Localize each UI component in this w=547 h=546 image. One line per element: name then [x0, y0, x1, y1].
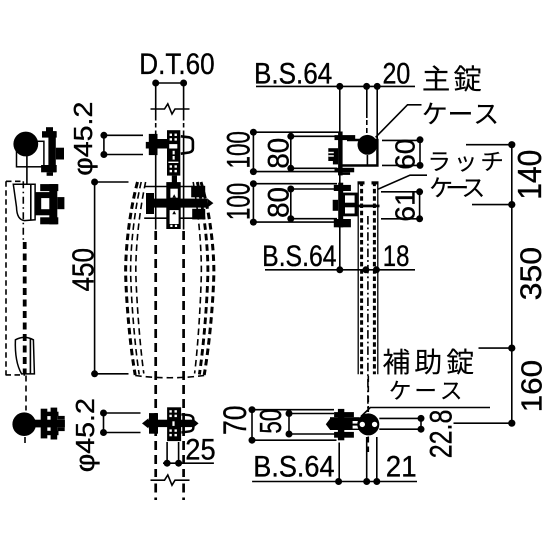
svg-text:80: 80 — [263, 138, 296, 169]
leader to aux label / underline — [361, 408, 490, 417]
svg-text:450: 450 — [66, 248, 101, 291]
centre line through strip — [367, 216, 369, 412]
svg-text:φ45.2: φ45.2 — [70, 398, 99, 472]
dim line top B.S. — [256, 85, 415, 87]
svg-text:B.S.64: B.S.64 — [253, 449, 334, 482]
left view: bottom lock flanges — [34, 408, 65, 440]
door lines middle (hidden) — [156, 131, 184, 230]
dim chain 140/350/160 — [454, 145, 512, 424]
svg-text:φ45.2: φ45.2 — [68, 102, 97, 176]
svg-text:25: 25 — [185, 433, 215, 466]
dim line bottom B.S. — [252, 481, 417, 483]
label ケース (latch) — [431, 177, 452, 197]
svg-text:60: 60 — [390, 139, 421, 170]
svg-text:80: 80 — [263, 187, 296, 218]
latch case — [333, 183, 358, 228]
left view: handle grip hidden outline — [6, 181, 26, 375]
extension lines to bottom B.S. — [339, 437, 377, 482]
pipe break symbol bottom — [151, 475, 190, 485]
svg-text:350: 350 — [514, 247, 547, 301]
dim 61 — [381, 192, 420, 219]
svg-text:B.S.64: B.S.64 — [262, 239, 336, 273]
svg-text:140: 140 — [510, 150, 547, 200]
leader to main lock label — [376, 105, 422, 138]
main lock cylinder (black circle) — [358, 135, 378, 155]
barrel handle outline (dashed) — [126, 182, 214, 378]
left view: thin case outline — [17, 141, 44, 167]
pipe break symbol top — [151, 104, 190, 114]
upper handle mount (middle figure) — [144, 187, 193, 219]
svg-text:18: 18 — [383, 240, 410, 273]
lower lock right loop — [181, 414, 193, 432]
dim 60 — [382, 140, 420, 166]
dim 25 — [163, 442, 214, 463]
left view: bottom knob (thumbturn) — [12, 412, 36, 436]
svg-text:22.8: 22.8 — [424, 410, 459, 459]
label 主錠 — [423, 65, 448, 90]
main lock case (shujo case) — [342, 140, 377, 166]
dims 100/80 (left of right figure) — [253, 132, 339, 222]
faceplate reference line — [340, 86, 377, 269]
upper lock right loop — [181, 136, 193, 153]
auxiliary lock cylinder — [357, 413, 379, 435]
left view: top knob (thumbturn) — [13, 132, 38, 157]
label ラッチ — [431, 152, 449, 171]
edge channel strip (hatched) — [358, 182, 378, 375]
lower lock assembly (middle figure) — [142, 407, 199, 441]
left view: upper mount flange — [35, 184, 64, 224]
dims 70/50 (aux lock) — [252, 410, 337, 441]
label ケース (aux) — [390, 381, 409, 400]
leader to latch label — [378, 175, 427, 189]
svg-text:D.T.60: D.T.60 — [139, 47, 214, 80]
svg-text:50: 50 — [254, 409, 288, 434]
left view: top bracket flanges — [41, 127, 64, 176]
left view: centre stem — [26, 150, 28, 185]
svg-text:70: 70 — [218, 405, 254, 435]
label 補助錠 — [383, 349, 409, 375]
upper lock assembly (middle figure) — [146, 130, 181, 182]
svg-text:100: 100 — [220, 131, 256, 168]
svg-text:20: 20 — [383, 57, 411, 90]
svg-text:B.S.64: B.S.64 — [254, 57, 332, 90]
dim 22.8 — [379, 418, 421, 429]
label ケース (main lock) — [423, 103, 445, 125]
door line left upper — [156, 83, 184, 131]
left view: upper post — [13, 184, 35, 220]
dim line middle B.S. — [265, 269, 415, 271]
auxiliary lock case — [326, 409, 360, 440]
svg-text:160: 160 — [517, 360, 547, 412]
svg-text:21: 21 — [386, 451, 417, 484]
left view: lower post — [15, 337, 34, 374]
svg-text:100: 100 — [220, 183, 256, 220]
centre line upper — [366, 86, 369, 165]
svg-text:61: 61 — [390, 190, 421, 221]
left view: lower centre line — [25, 376, 26, 448]
dim line D.T.60 — [156, 82, 184, 84]
centre line below strip — [367, 376, 369, 452]
